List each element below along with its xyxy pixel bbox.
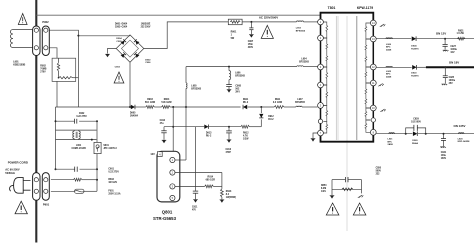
capacitor C850 — [344, 177, 346, 182]
svg-text:2A58: 2A58 — [386, 76, 392, 79]
Q801 pin 3 — [170, 184, 175, 189]
primary winding 2-3 — [323, 38, 327, 67]
svg-text:1000u: 1000u — [449, 80, 456, 82]
inductor L903 — [297, 21, 304, 22]
node 12V junction — [444, 38, 446, 40]
svg-text:BFS3565: BFS3565 — [299, 61, 309, 63]
svg-text:BFS3565: BFS3565 — [235, 75, 245, 77]
warning triangle bottom b — [353, 203, 366, 215]
svg-text:STR-G5653: STR-G5653 — [153, 216, 177, 221]
svg-text:680 1/2R: 680 1/2R — [206, 179, 216, 181]
T801 pin 2 — [318, 35, 324, 41]
svg-text:L905: L905 — [191, 86, 197, 88]
T801 pin 7 — [318, 130, 324, 136]
wire L905 vertical — [185, 67, 187, 83]
node rail C601 — [55, 168, 57, 170]
svg-text:0.22 275V: 0.22 275V — [108, 171, 119, 173]
svg-text:L921: L921 — [388, 139, 394, 141]
transformer primary rail — [320, 22, 322, 133]
svg-text:F601: F601 — [108, 191, 114, 193]
ground R913 — [220, 200, 224, 203]
T801 sec pin 8 — [370, 129, 376, 135]
warning triangle top-left — [18, 14, 27, 25]
wire R602 row — [51, 179, 74, 181]
wire drain vertical x173 — [172, 107, 174, 151]
svg-text:D924: D924 — [411, 45, 417, 48]
capacitor C929 snubber — [406, 128, 426, 134]
capacitor C927 — [444, 39, 446, 45]
svg-text:270V: 270V — [40, 71, 46, 73]
wire R913 vertical — [221, 173, 223, 189]
svg-text:L926: L926 — [386, 44, 392, 46]
svg-text:POWER CORD: POWER CORD — [8, 160, 28, 164]
wire main DC rail y107 — [56, 106, 131, 108]
secondary winding b — [365, 39, 370, 67]
svg-text:70MB: 70MB — [40, 68, 46, 70]
svg-text:KRF-G6258: KRF-G6258 — [458, 141, 471, 143]
svg-text:L907: L907 — [297, 99, 303, 101]
connector P901 — [33, 173, 40, 201]
svg-text:150n: 150n — [248, 44, 254, 46]
svg-text:P902: P902 — [42, 20, 49, 24]
svg-text:47u: 47u — [160, 122, 165, 125]
wire F601 row — [51, 190, 75, 192]
node C913 tap — [228, 126, 230, 128]
T801 sec pin 13 — [370, 36, 376, 42]
chassis sec pin14 — [380, 24, 386, 27]
T801 pin 4 — [318, 82, 324, 88]
inductor L905 — [186, 83, 187, 89]
svg-text:R914: R914 — [208, 175, 214, 178]
svg-text:RU4A: RU4A — [412, 142, 418, 145]
svg-text:D920: D920 — [412, 140, 418, 142]
capacitor C908 — [228, 80, 230, 85]
chassis sec pin10 — [380, 109, 386, 112]
svg-text:L906: L906 — [235, 72, 241, 74]
inductor L904 — [297, 65, 303, 68]
svg-text:BFS3565: BFS3565 — [191, 89, 201, 91]
wire Q801 pin1 — [175, 159, 186, 161]
node 135V junction — [443, 133, 445, 135]
svg-text:R911: R911 — [275, 99, 281, 101]
T801 sec pin 11 — [370, 80, 376, 86]
resistor R850 — [342, 188, 353, 191]
diode D912 — [259, 114, 263, 118]
svg-text:KSB2105B: KSB2105B — [13, 63, 25, 66]
svg-text:BFC: BFC — [388, 141, 393, 143]
svg-text:C903~C904: C903~C904 — [115, 25, 128, 28]
svg-text:12V: 12V — [150, 153, 155, 156]
svg-text:BFS3565: BFS3565 — [296, 30, 306, 32]
warning triangle AC line — [261, 25, 273, 38]
svg-text:D923: D923 — [411, 73, 417, 75]
wire R850 bottom — [332, 188, 362, 190]
wire posistor to rail — [56, 81, 58, 107]
diode D923 — [412, 65, 416, 70]
svg-text:ON 12V: ON 12V — [436, 32, 446, 36]
svg-text:C903: C903 — [115, 66, 121, 68]
T801 pin 3 — [318, 64, 324, 70]
resistor R913 — [221, 189, 224, 197]
svg-text:2KV: 2KV — [235, 92, 240, 94]
fold line gray — [346, 16, 348, 231]
svg-text:T801: T801 — [328, 6, 336, 10]
svg-text:1/2S: 1/2S — [321, 191, 326, 193]
wire C850 top — [332, 179, 345, 181]
transformer T801 top bracket — [321, 13, 374, 23]
diode bridge D901-D904 — [116, 35, 144, 62]
svg-text:C941: C941 — [441, 151, 447, 154]
svg-text:JPF-11078-3: JPF-11078-3 — [103, 148, 117, 150]
svg-text:Q801: Q801 — [162, 210, 173, 215]
T801 pin 6 — [318, 119, 322, 123]
svg-text:470P: 470P — [226, 151, 232, 154]
chassis sec pin11 — [378, 84, 384, 87]
node D920 anode — [405, 133, 407, 135]
svg-text:AC 90-250V: AC 90-250V — [5, 168, 20, 172]
chassis snubber right — [358, 195, 364, 198]
svg-text:C908: C908 — [235, 86, 241, 88]
svg-text:D912: D912 — [268, 116, 274, 118]
svg-text:D913: D913 — [206, 132, 212, 134]
capacitor C601 — [74, 167, 76, 172]
warning triangle bottom-left — [15, 201, 27, 214]
inductor L901 — [13, 29, 33, 31]
secondary winding f — [365, 120, 370, 132]
Q801 pin 1 — [170, 157, 175, 162]
svg-text:R602: R602 — [108, 179, 114, 181]
svg-text:C927: C927 — [450, 46, 456, 48]
wire left rail x55.5 — [55, 107, 57, 169]
svg-text:3.3 1/2W: 3.3 1/2W — [273, 102, 283, 104]
svg-text:C907: C907 — [248, 41, 254, 43]
resistor R901 — [228, 19, 242, 25]
svg-text:C905: C905 — [116, 41, 122, 43]
inductor L920 — [459, 133, 465, 134]
T801 sec pin 14 — [370, 20, 376, 26]
resistor R931 — [458, 37, 465, 40]
svg-text:C906: C906 — [145, 62, 151, 64]
svg-text:L925: L925 — [386, 71, 392, 73]
svg-text:1N5393E: 1N5393E — [141, 24, 151, 26]
inductor L925 — [386, 65, 393, 68]
svg-text:1N4004: 1N4004 — [130, 115, 139, 118]
T801 sec pin 9 — [371, 118, 375, 122]
inductor L926 — [386, 37, 393, 40]
wire left page-edge thick vertical — [35, 0, 37, 243]
svg-text:1000u: 1000u — [450, 49, 457, 51]
svg-text:D911: D911 — [243, 99, 249, 101]
svg-text:1W(FRW): 1W(FRW) — [226, 197, 236, 199]
primary winding 4-5 — [323, 85, 327, 105]
primary winding 3-4 — [323, 67, 327, 85]
svg-text:L601: L601 — [76, 145, 82, 147]
primary winding 1-2 — [323, 22, 327, 38]
inductor L907 — [296, 105, 302, 108]
node R904-C912 — [172, 106, 174, 108]
svg-text:D904: D904 — [116, 37, 122, 40]
svg-text:1M 1/2S: 1M 1/2S — [108, 182, 117, 184]
wire P902 pin2 to posistor — [49, 48, 57, 58]
svg-text:C902: C902 — [79, 113, 85, 115]
svg-text:50/60Hz: 50/60Hz — [5, 171, 15, 175]
secondary winding c — [365, 67, 370, 83]
wire D912 vertical — [260, 107, 262, 113]
node choke bottom — [91, 139, 93, 141]
wire AC line to T801 pin1 — [242, 21, 296, 23]
wire Q801 pin3 row — [175, 185, 205, 187]
svg-text:L904: L904 — [301, 57, 307, 60]
node C902 right — [96, 120, 98, 122]
ground bridge-left — [106, 54, 110, 57]
resistor R903 — [146, 106, 155, 109]
node L905 rail — [185, 106, 187, 108]
capacitor C912 — [163, 127, 165, 131]
wire right rail x97 — [96, 121, 98, 142]
T801 sec pin 12 — [370, 64, 376, 70]
svg-text:C850: C850 — [376, 167, 382, 169]
svg-text:100u: 100u — [441, 155, 447, 157]
svg-text:C913: C913 — [226, 149, 232, 151]
svg-text:160V: 160V — [441, 158, 447, 160]
svg-text:D905: D905 — [130, 113, 136, 115]
transformer bottom bracket — [321, 132, 374, 141]
svg-text:RU-2: RU-2 — [243, 102, 249, 104]
wire gate vertical x195.5 — [195, 127, 197, 191]
wire 18V thick output — [426, 66, 474, 68]
svg-text:C929: C929 — [413, 119, 419, 121]
capacitor C907 — [250, 22, 252, 28]
diode D924 — [412, 36, 416, 41]
ground T801 primary bottom — [313, 133, 318, 138]
wire feedback y66.6 — [186, 66, 297, 68]
svg-text:250V 3.15A: 250V 3.15A — [108, 193, 120, 196]
node snubber tap — [228, 66, 230, 68]
wire choke bottom row — [56, 139, 97, 141]
svg-text:RU-2: RU-2 — [206, 135, 212, 137]
thermistor R902 degauss posistor box — [52, 58, 76, 81]
inductor L921 — [389, 133, 395, 134]
ground snubber left — [330, 196, 334, 199]
T801 pin 5 — [318, 103, 324, 109]
primary winding 6-7 — [323, 121, 327, 133]
svg-text:0.22 275V: 0.22 275V — [76, 116, 87, 118]
svg-text:R913: R913 — [226, 191, 232, 193]
resistor R914 — [205, 185, 214, 188]
svg-text:16V: 16V — [450, 52, 455, 54]
svg-text:400V: 400V — [248, 46, 254, 49]
transformer secondary rail — [372, 23, 374, 132]
node 18V junction — [444, 66, 446, 68]
svg-text:2A58: 2A58 — [388, 143, 394, 146]
node bridge rail junction — [129, 106, 131, 108]
svg-text:S601: S601 — [103, 145, 109, 147]
capacitor C941 — [443, 134, 445, 139]
wire C902 row — [56, 120, 75, 122]
wire 12V row — [376, 38, 411, 40]
svg-text:AC 220V/290V: AC 220V/290V — [259, 15, 278, 19]
svg-text:8.2M: 8.2M — [321, 188, 326, 190]
fuse F601 — [75, 189, 85, 193]
svg-text:L920: L920 — [458, 138, 464, 140]
svg-text:BFC: BFC — [386, 74, 391, 76]
connector P902 — [33, 26, 40, 56]
T801 pin 1 — [318, 19, 324, 25]
node degauss junction — [77, 35, 79, 37]
secondary winding e — [365, 108, 370, 120]
svg-text:500V: 500V — [376, 170, 382, 172]
svg-text:BFC: BFC — [386, 47, 391, 49]
wire 135V row — [376, 133, 412, 135]
svg-text:C912: C912 — [160, 120, 166, 122]
svg-text:1.5 2W: 1.5 2W — [457, 33, 465, 35]
wire to bridge top — [78, 35, 130, 37]
wire snubber left vertical — [331, 180, 333, 196]
svg-text:ON 135V: ON 135V — [454, 124, 466, 128]
svg-text:RU4YX: RU4YX — [411, 47, 419, 50]
svg-text:KPW-1179: KPW-1179 — [357, 6, 373, 10]
svg-text:51K 1/2W: 51K 1/2W — [161, 102, 172, 104]
svg-text:C925: C925 — [449, 77, 455, 79]
svg-text:BFS3565: BFS3565 — [295, 102, 305, 104]
svg-text:R850: R850 — [321, 185, 327, 187]
svg-text:2A58: 2A58 — [386, 49, 392, 52]
op-amp U1 regulator Q801 STR-G5653 — [157, 151, 180, 202]
wire D913 row y126.7 — [164, 126, 204, 128]
diode D913 — [204, 125, 208, 129]
switch S601 — [94, 142, 101, 153]
node rail C601 right — [96, 168, 98, 170]
resistor R904 — [162, 106, 171, 109]
svg-text:P901: P901 — [43, 202, 50, 206]
svg-text:51K 1/2W: 51K 1/2W — [145, 102, 156, 104]
svg-text:C911: C911 — [192, 206, 198, 208]
capacitor C911 — [193, 190, 198, 192]
node D920 cathode — [425, 133, 427, 135]
resistor R602 — [74, 178, 82, 181]
wire snubber right vertical — [361, 180, 363, 194]
svg-text:ON 18V: ON 18V — [449, 60, 459, 64]
node D912 top — [260, 106, 262, 108]
secondary winding a — [365, 23, 370, 39]
wire top border — [36, 14, 320, 16]
svg-text:C601: C601 — [108, 168, 114, 170]
wire choke top row — [56, 129, 97, 131]
svg-text:D901~D904: D901~D904 — [115, 23, 128, 26]
capacitor C902 — [74, 119, 76, 124]
wire Q801 pin2 row — [175, 172, 222, 174]
svg-text:R904: R904 — [164, 98, 170, 101]
svg-text:222 250V: 222 250V — [141, 26, 151, 28]
resistor R912 — [241, 125, 250, 128]
transformer core lines — [335, 16, 337, 140]
transformer L601 common-mode choke — [73, 131, 74, 139]
wire L906 C908 branch — [228, 67, 230, 71]
svg-text:R902: R902 — [40, 65, 46, 67]
node rail C902 — [55, 120, 57, 122]
wire bridge left to ground — [108, 49, 117, 54]
svg-text:102 500V: 102 500V — [411, 122, 421, 124]
Q801 pin 2 — [170, 170, 175, 175]
svg-text:1/2W: 1/2W — [243, 138, 249, 140]
svg-text:RU4YX: RU4YX — [411, 74, 419, 77]
wire bridge bottom rail — [129, 62, 131, 107]
svg-text:R912: R912 — [243, 132, 249, 134]
capacitor C913 — [228, 127, 230, 131]
inductor L906 — [229, 71, 231, 80]
svg-text:COMF-2014B: COMF-2014B — [71, 147, 86, 150]
svg-text:RU-2: RU-2 — [268, 119, 274, 121]
Q801 pin 5 — [170, 195, 175, 200]
node rail F601 — [96, 179, 98, 181]
svg-text:4.7K: 4.7K — [243, 134, 248, 137]
warning triangle bottom a — [326, 203, 339, 215]
node AC junction — [250, 21, 252, 23]
secondary winding d — [365, 83, 370, 108]
diode D920 — [413, 131, 417, 136]
diode D911 — [243, 105, 247, 109]
capacitor C925 — [444, 67, 446, 75]
diode D905 — [131, 105, 135, 109]
wire P902 to degauss node — [49, 30, 78, 107]
svg-text:R903: R903 — [147, 99, 153, 101]
T801 sec pin 10 — [370, 105, 376, 111]
primary winding 5-6 — [323, 105, 327, 121]
warning triangle below bridge — [114, 72, 124, 83]
wire bridge right to AC line — [144, 22, 229, 49]
wire 18V row — [376, 66, 412, 68]
resistor R911 — [274, 106, 284, 109]
wire C601 row — [55, 168, 75, 170]
node drain-D913 wire — [172, 126, 174, 128]
AC plug symbol — [23, 181, 30, 191]
svg-text:25V: 25V — [449, 83, 454, 85]
